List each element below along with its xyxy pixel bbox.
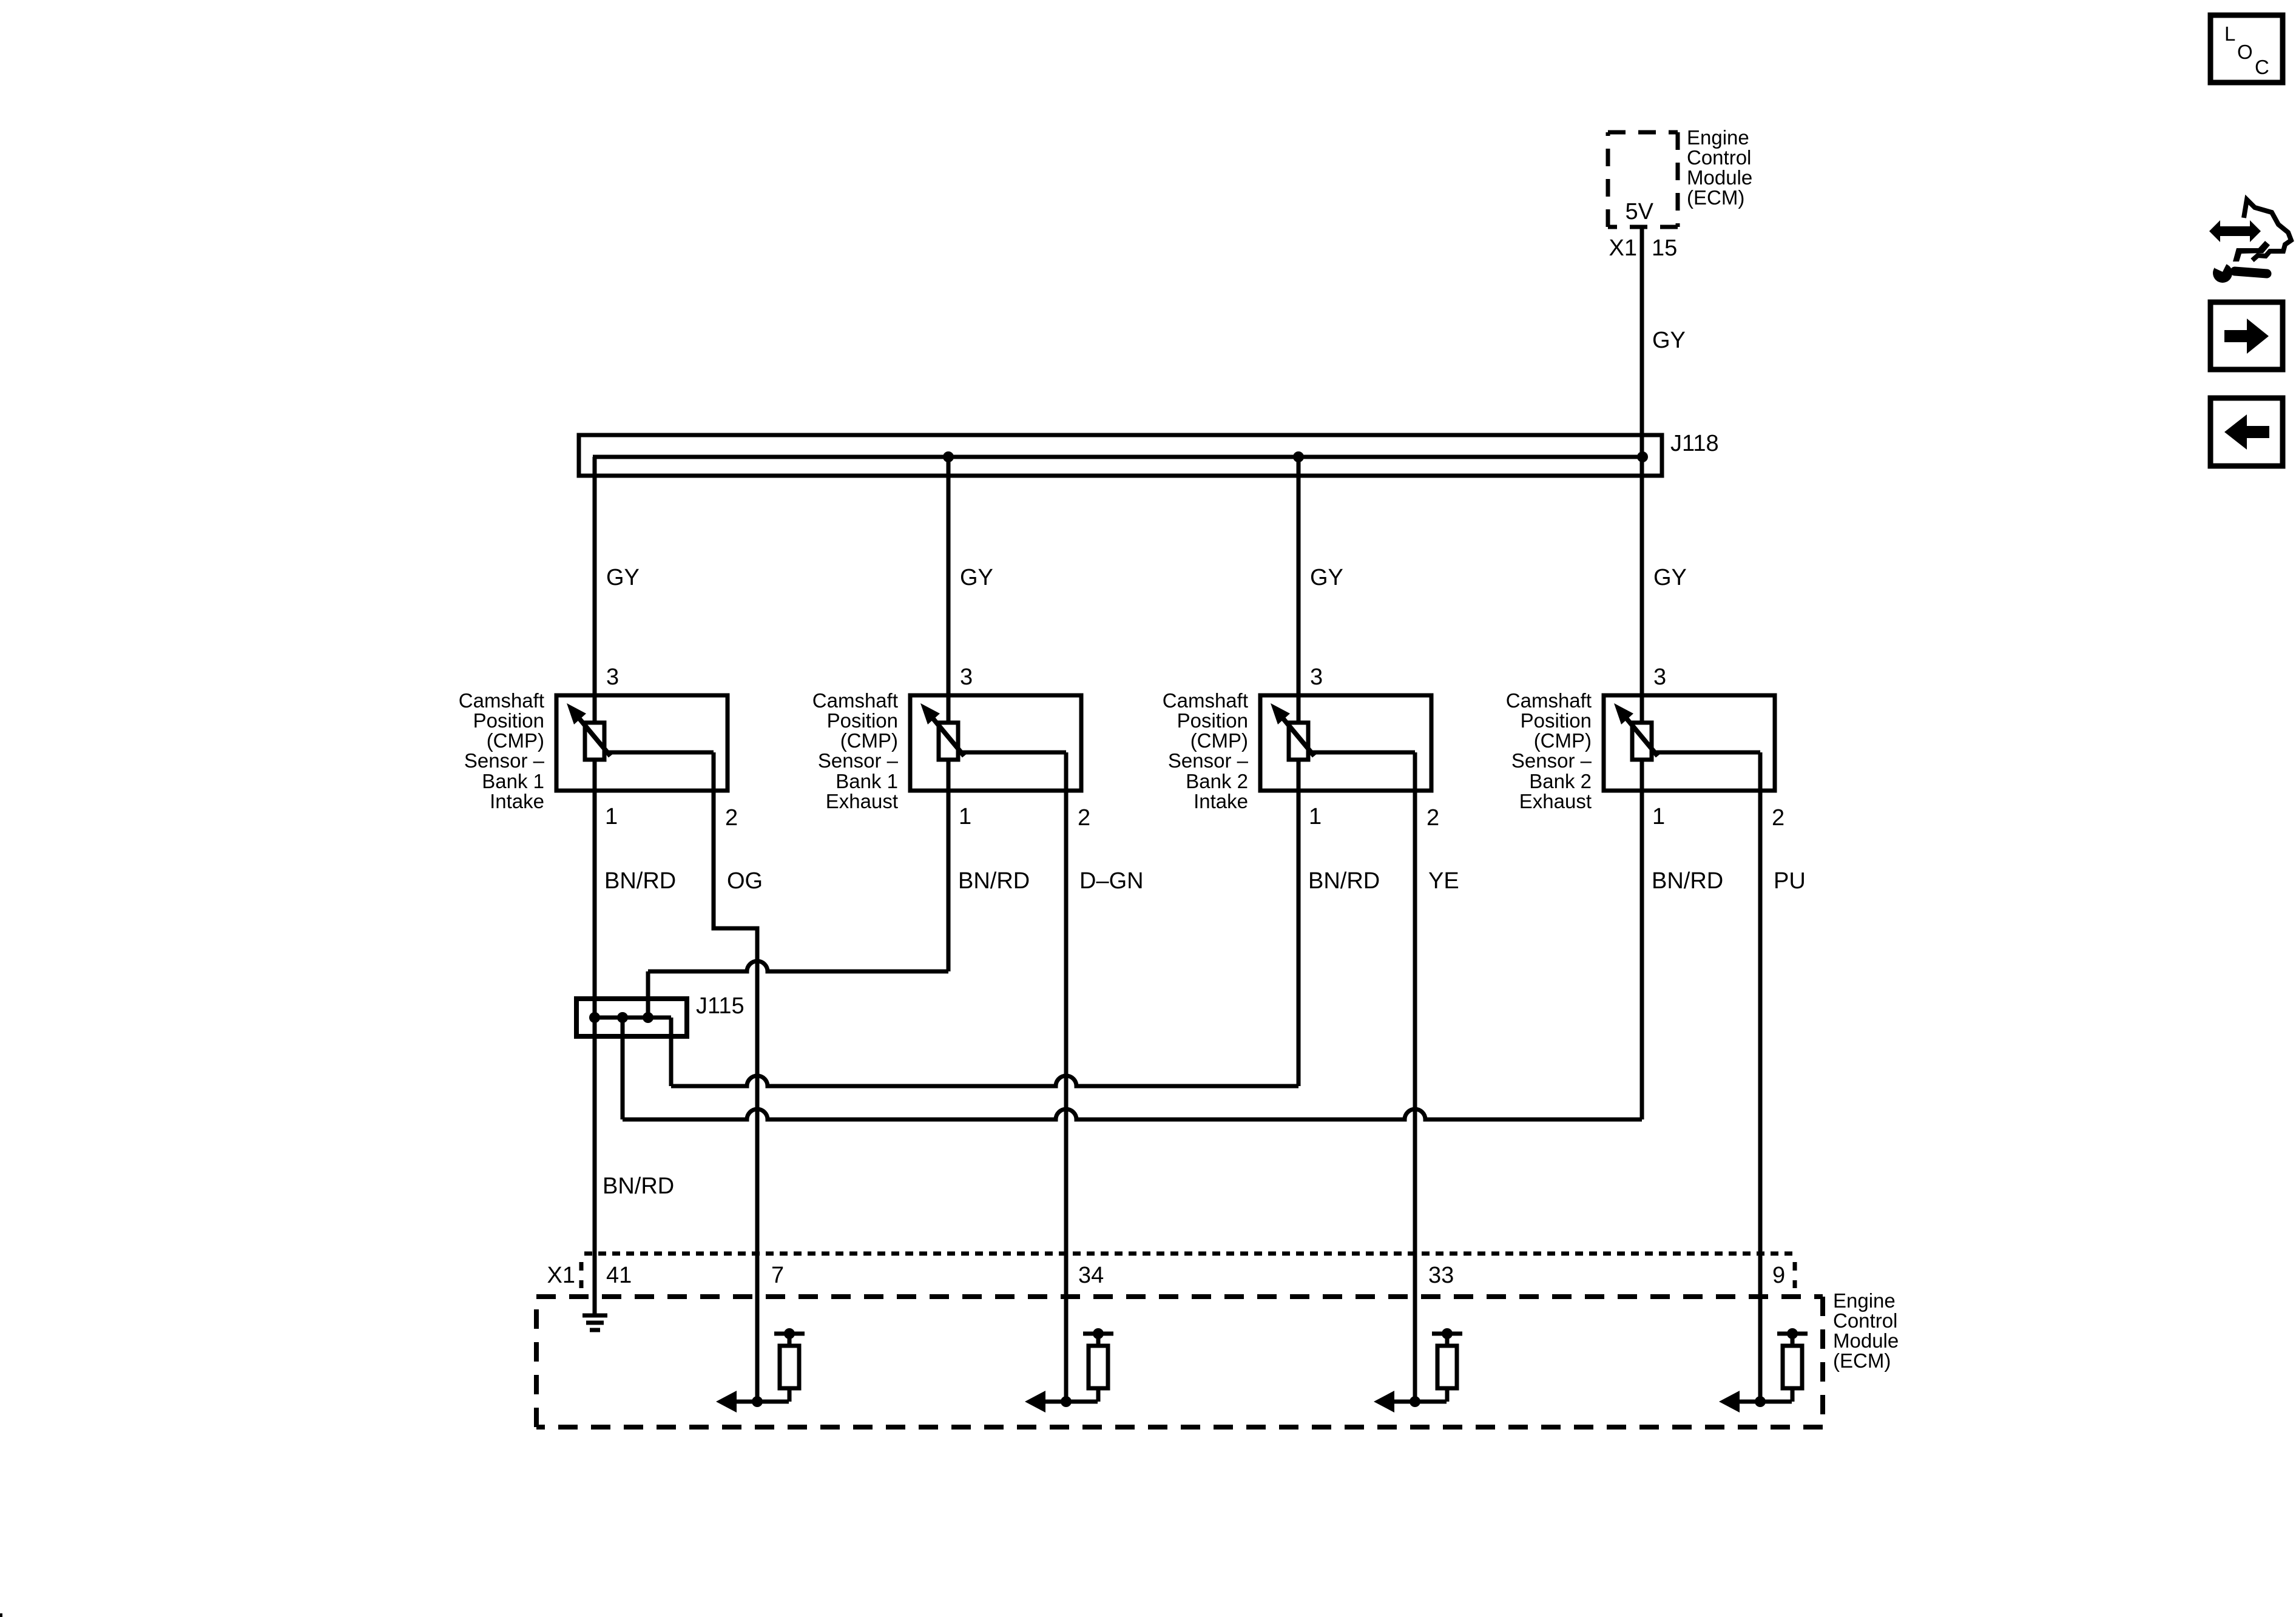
svg-text:J115: J115 xyxy=(696,993,745,1019)
svg-text:1: 1 xyxy=(1652,804,1665,829)
wire J115 splice 2 drop to Bank 2 Exhaust return xyxy=(621,1018,625,1119)
icon: back arrow box xyxy=(2210,398,2283,466)
label sensor 1 name xyxy=(459,689,545,812)
svg-text:(CMP): (CMP) xyxy=(487,729,544,752)
sensor 4 internal output wire to pin 2 xyxy=(1655,751,1760,755)
wire D-GN: sensor 2 pin 2 to ECM pin 34 xyxy=(1064,752,1069,1402)
svg-text:2: 2 xyxy=(1427,805,1439,831)
svg-text:(ECM): (ECM) xyxy=(1687,186,1744,209)
resistor (pull-up, pin 9 (PU)) xyxy=(1783,1334,1802,1402)
ECM input network pin 34 (D-GN): signal line with arrow xyxy=(1025,1391,1098,1413)
wire J118 internal bus line xyxy=(593,455,1643,459)
svg-text:Module: Module xyxy=(1687,166,1752,189)
junction dot pin 33 (YE) xyxy=(1410,1396,1420,1407)
label sensor 4 name xyxy=(1506,689,1592,812)
svg-text:2: 2 xyxy=(1772,805,1784,831)
ECM top connector dashed box xyxy=(1608,132,1678,227)
sensor 2 variable arrow xyxy=(920,703,964,756)
svg-text:PU: PU xyxy=(1774,868,1806,894)
svg-text:3: 3 xyxy=(960,664,973,690)
svg-text:BN/RD: BN/RD xyxy=(604,868,676,894)
junction dot J118 / Bank 2 Intake xyxy=(1293,451,1304,462)
svg-text:34: 34 xyxy=(1078,1263,1104,1288)
sensor 4 element (variable sensor rect) xyxy=(1632,723,1652,760)
sensor 3 variable arrow xyxy=(1271,703,1314,756)
svg-text:1: 1 xyxy=(959,804,971,829)
resistor (pull-up, pin 34 (D-GN)) xyxy=(1089,1334,1108,1402)
svg-text:7: 7 xyxy=(771,1263,784,1288)
svg-text:GY: GY xyxy=(1310,565,1343,590)
svg-text:C: C xyxy=(2255,56,2269,78)
sensor 3 internal output wire to pin 2 xyxy=(1312,751,1415,755)
sensor 4 variable arrow xyxy=(1614,703,1658,756)
svg-text:GY: GY xyxy=(606,565,640,590)
svg-text:Exhaust: Exhaust xyxy=(826,790,898,812)
wire BN/RD return: Bank 2 Exhaust to J115 (hops OG, D-GN, YE) xyxy=(623,1109,1642,1119)
junction dot J115 splice 2 xyxy=(617,1012,628,1023)
svg-text:(CMP): (CMP) xyxy=(1534,729,1592,752)
svg-text:YE: YE xyxy=(1428,868,1459,894)
svg-text:Sensor –: Sensor – xyxy=(1168,749,1249,772)
svg-text:3: 3 xyxy=(1653,664,1666,690)
svg-text:Position: Position xyxy=(473,709,544,732)
internal 5V rail tap pin 34 (D-GN) xyxy=(1083,1328,1113,1339)
label sensor 2 name xyxy=(812,689,899,812)
svg-text:Camshaft: Camshaft xyxy=(812,689,898,712)
icon: harness repair (double arrow, connector outline, wrench) xyxy=(2209,200,2291,283)
svg-text:2: 2 xyxy=(725,805,738,831)
wire GY/BN-RD drop to CMP Bank 1 Intake and on to ground xyxy=(593,457,597,1314)
svg-text:Control: Control xyxy=(1833,1309,1897,1332)
internal 5V rail tap pin 33 (YE) xyxy=(1432,1328,1462,1339)
svg-text:15: 15 xyxy=(1652,235,1677,261)
camshaft position sensor 3 (Bank 2 Intake) box xyxy=(1260,695,1431,791)
internal 5V rail tap pin 9 (PU) xyxy=(1777,1328,1808,1339)
svg-text:Engine: Engine xyxy=(1687,126,1749,149)
camshaft position sensor 1 (Bank 1 Intake) box xyxy=(556,695,728,791)
splice pack J118 bus outline xyxy=(579,435,1662,476)
label sensor 3 name xyxy=(1163,689,1249,812)
svg-text:Camshaft: Camshaft xyxy=(1163,689,1248,712)
svg-text:Camshaft: Camshaft xyxy=(459,689,544,712)
svg-text:L: L xyxy=(2224,22,2235,45)
sensor 1 variable arrow xyxy=(567,703,610,756)
wire GY/BN-RD drop from ECM 5V through J118 to CMP Bank 2 Exhaust xyxy=(1640,227,1644,1119)
sensor 1 element (variable sensor rect) xyxy=(585,723,604,760)
wire YE: sensor 3 pin 2 to ECM pin 33 xyxy=(1413,752,1417,1402)
svg-text:(ECM): (ECM) xyxy=(1833,1349,1891,1372)
wire PU: sensor 4 pin 2 to ECM pin 9 xyxy=(1758,752,1763,1402)
wire GY/BN-RD drop to CMP Bank 2 Intake xyxy=(1297,457,1301,1086)
svg-text:(CMP): (CMP) xyxy=(1190,729,1248,752)
svg-text:2: 2 xyxy=(1078,805,1090,831)
ECM bottom dashed box xyxy=(536,1297,1823,1427)
svg-text:BN/RD: BN/RD xyxy=(1652,868,1723,894)
wire OG: sensor 1 pin 2 with jog to ECM pin 7 xyxy=(714,752,757,1402)
svg-text:Position: Position xyxy=(1177,709,1248,732)
svg-text:BN/RD: BN/RD xyxy=(1308,868,1380,894)
svg-text:Bank 1: Bank 1 xyxy=(482,770,544,792)
wire J115 drop to Bank 2 Intake return xyxy=(669,1018,674,1086)
resistor (pull-up, pin 7 (OG)) xyxy=(780,1334,799,1402)
svg-text:O: O xyxy=(2237,41,2253,63)
svg-text:D–GN: D–GN xyxy=(1079,868,1144,894)
sensor 3 element (variable sensor rect) xyxy=(1289,723,1308,760)
svg-text:BN/RD: BN/RD xyxy=(603,1173,674,1199)
svg-text:GY: GY xyxy=(960,565,993,590)
camshaft position sensor 2 (Bank 1 Exhaust) box xyxy=(910,695,1081,791)
junction dot pin 34 (D-GN) xyxy=(1061,1396,1072,1407)
svg-text:Sensor –: Sensor – xyxy=(464,749,545,772)
ground symbol (ECM pin 41) xyxy=(582,1315,607,1330)
svg-text:41: 41 xyxy=(606,1263,632,1288)
legend box LOC xyxy=(2210,15,2283,83)
junction dot J118 / Bank 1 Exhaust xyxy=(943,451,954,462)
ECM input network pin 9 (PU): signal line with arrow xyxy=(1719,1391,1792,1413)
svg-text:Intake: Intake xyxy=(490,790,544,812)
sensor 2 internal output wire to pin 2 xyxy=(962,751,1066,755)
svg-text:Sensor –: Sensor – xyxy=(818,749,899,772)
splice J115 box xyxy=(576,999,687,1036)
ECM X1 connector left tick xyxy=(579,1262,584,1288)
svg-text:(CMP): (CMP) xyxy=(840,729,898,752)
ECM X1 connector right tick xyxy=(1793,1262,1797,1288)
svg-text:Bank 2: Bank 2 xyxy=(1186,770,1248,792)
ECM bottom connector X1 dotted line xyxy=(584,1252,1794,1256)
junction dot J118 / ECM feed xyxy=(1637,451,1648,462)
svg-text:J118: J118 xyxy=(1670,431,1719,456)
svg-text:Exhaust: Exhaust xyxy=(1519,790,1592,812)
svg-text:Position: Position xyxy=(827,709,898,732)
svg-text:33: 33 xyxy=(1428,1263,1454,1288)
svg-text:BN/RD: BN/RD xyxy=(958,868,1030,894)
svg-text:Control: Control xyxy=(1687,146,1751,169)
svg-text:Bank 2: Bank 2 xyxy=(1529,770,1592,792)
junction dot J115 splice 3 xyxy=(643,1012,653,1023)
svg-text:9: 9 xyxy=(1772,1263,1785,1288)
resistor (pull-up, pin 33 (YE)) xyxy=(1437,1334,1457,1402)
sensor 1 internal output wire to pin 2 xyxy=(608,751,714,755)
svg-text:OG: OG xyxy=(727,868,763,894)
wire J115 internal bus xyxy=(595,1016,671,1020)
svg-text:GY: GY xyxy=(1653,565,1687,590)
ECM input network pin 7 (OG): signal line with arrow xyxy=(716,1391,789,1413)
camshaft position sensor 4 (Bank 2 Exhaust) box xyxy=(1604,695,1775,791)
svg-text:X1: X1 xyxy=(547,1263,575,1288)
internal 5V rail tap pin 7 (OG) xyxy=(774,1328,805,1339)
svg-text:3: 3 xyxy=(1310,664,1323,690)
svg-text:5V: 5V xyxy=(1626,199,1654,224)
wire BN/RD return: Bank 2 Intake to J115 (hops OG, D-GN) xyxy=(671,1076,1298,1086)
page corner mark xyxy=(0,1613,2,1617)
wire BN/RD return: Bank 1 Exhaust to J115 (hops OG) xyxy=(648,961,948,971)
sensor 2 element (variable sensor rect) xyxy=(939,723,958,760)
svg-text:GY: GY xyxy=(1652,328,1686,353)
svg-text:3: 3 xyxy=(606,664,619,690)
ECM input network pin 33 (YE): signal line with arrow xyxy=(1374,1391,1447,1413)
junction dot pin 9 (PU) xyxy=(1755,1396,1766,1407)
svg-text:Position: Position xyxy=(1521,709,1592,732)
svg-text:Bank 1: Bank 1 xyxy=(836,770,898,792)
label Engine Control Module (ECM) bottom xyxy=(1833,1289,1899,1372)
wire GY/BN-RD drop to CMP Bank 1 Exhaust xyxy=(947,457,951,971)
svg-text:Sensor –: Sensor – xyxy=(1511,749,1592,772)
junction dot pin 7 (OG) xyxy=(752,1396,763,1407)
svg-text:Intake: Intake xyxy=(1194,790,1248,812)
svg-text:1: 1 xyxy=(605,804,618,829)
svg-text:X1: X1 xyxy=(1609,235,1637,261)
svg-text:Module: Module xyxy=(1833,1329,1899,1352)
wire J115 splice 3 riser to Bank 1 Exhaust return xyxy=(646,971,650,1018)
svg-text:Camshaft: Camshaft xyxy=(1506,689,1592,712)
icon: forward arrow box xyxy=(2210,302,2283,370)
svg-text:Engine: Engine xyxy=(1833,1289,1896,1312)
junction dot J115 splice 1 (BN/RD main) xyxy=(589,1012,600,1023)
svg-text:1: 1 xyxy=(1309,804,1322,829)
label Engine Control Module (ECM) top xyxy=(1687,126,1752,209)
